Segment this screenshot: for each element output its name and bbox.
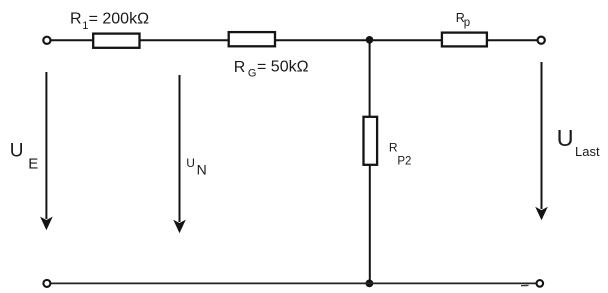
label UN bbox=[186, 156, 206, 178]
svg-text:P2: P2 bbox=[397, 156, 411, 168]
svg-text:R: R bbox=[70, 11, 82, 28]
wire RP2 down to bottom junction bbox=[369, 166, 371, 284]
label RP2 bbox=[389, 141, 412, 168]
svg-text:Last: Last bbox=[575, 144, 600, 159]
wire bottom bbox=[51, 282, 537, 284]
resistor Rp bbox=[442, 33, 487, 47]
node junction top bbox=[366, 36, 374, 44]
node junction bottom bbox=[366, 280, 374, 288]
svg-text:p: p bbox=[464, 17, 470, 29]
arrow ULast bbox=[535, 62, 548, 220]
wire junction down to RP2 bbox=[369, 40, 371, 116]
terminal top-right bbox=[538, 37, 545, 44]
label UE bbox=[10, 140, 39, 172]
wire Rp to terminal top-right bbox=[488, 39, 538, 41]
svg-text:= 200kΩ: = 200kΩ bbox=[89, 11, 149, 28]
svg-text:E: E bbox=[28, 156, 38, 173]
label ULast bbox=[557, 125, 600, 159]
wire artifact near bottom-right terminal bbox=[521, 284, 529, 286]
resistor R1 bbox=[93, 34, 139, 48]
label R1 = 200kOhm bbox=[70, 11, 149, 32]
resistor RP2 bbox=[364, 117, 378, 165]
label Rp bbox=[456, 11, 470, 29]
terminal bottom-right bbox=[537, 280, 544, 287]
svg-text:1: 1 bbox=[82, 20, 88, 32]
arrow UN bbox=[173, 75, 186, 233]
resistor RG bbox=[229, 32, 275, 46]
wire RG to Rp bbox=[276, 39, 442, 41]
wire top-left to R1 bbox=[51, 39, 93, 41]
svg-text:N: N bbox=[197, 161, 207, 177]
terminal top-left bbox=[43, 37, 50, 44]
svg-text:R: R bbox=[389, 141, 398, 155]
svg-text:G: G bbox=[248, 68, 257, 80]
label RG = 50kOhm bbox=[234, 59, 309, 80]
svg-text:R: R bbox=[234, 59, 246, 76]
svg-text:U: U bbox=[10, 140, 24, 161]
wire R1 to RG bbox=[140, 39, 229, 41]
svg-text:U: U bbox=[186, 156, 195, 170]
arrow UE bbox=[40, 72, 53, 230]
terminal bottom-left bbox=[43, 280, 50, 287]
svg-text:= 50kΩ: = 50kΩ bbox=[257, 59, 309, 76]
svg-text:U: U bbox=[557, 125, 574, 151]
